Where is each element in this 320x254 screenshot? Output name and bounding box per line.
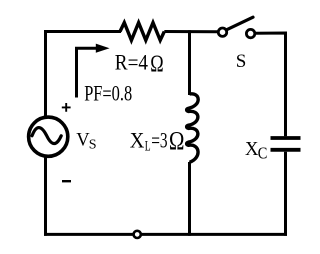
svg-text:R=4: R=4 [115,50,148,75]
svg-text:X: X [130,128,145,153]
switch S: right terminal [246,29,254,37]
wire: middle branch vertical top [188,30,191,95]
capacitor XC: top plate [271,136,301,140]
AC source VS: sine wave [32,128,61,144]
wire: bottom rail left of node [44,233,134,236]
node: open terminal on bottom rail [134,231,141,238]
wire: top-left vertical (source top to top rail) [44,30,47,116]
resistor R (zigzag) [120,23,164,41]
inductor XL (coil, 4 loops) [187,94,199,163]
svg-text:C: C [258,143,268,162]
capacitor XC: bottom plate [271,148,301,152]
wire: capacitor to bottom-right corner [284,152,287,236]
svg-text:Ω: Ω [150,50,163,77]
wire: top rail right segment (resistor to switch) [164,30,218,33]
current arrow (PF direction) [77,48,99,97]
svg-text:=3: =3 [151,128,167,153]
svg-text:X: X [245,138,259,160]
svg-text:S: S [236,51,247,72]
wire: middle branch vertical bottom [188,162,191,236]
switch S: left terminal [218,28,226,36]
svg-text:S: S [89,138,97,153]
svg-text:L: L [145,139,151,155]
switch S: blade [227,17,254,30]
wire: source bottom to bottom rail [44,158,47,236]
current arrow head [96,44,110,53]
wire: switch to top-right corner and down to capacitor [255,33,286,136]
svg-text:Ω: Ω [169,125,185,155]
label + (polarity) [62,103,71,112]
wire: bottom rail right of node [141,233,287,236]
wire: top rail left segment [44,30,121,33]
label - (polarity) [62,180,71,182]
AC source VS: circle [29,117,68,156]
svg-text:PF=0.8: PF=0.8 [84,81,132,106]
